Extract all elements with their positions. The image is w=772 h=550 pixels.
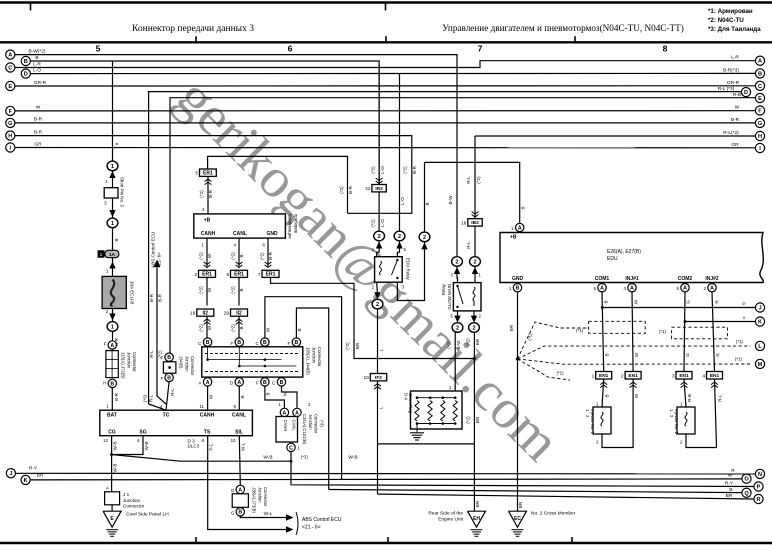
svg-text:7: 7	[258, 272, 261, 277]
svg-text:B: B	[239, 326, 244, 329]
bottom tick	[571, 537, 573, 543]
top border tick 2	[385, 4, 387, 11]
wire bus E to right C GR-R	[15, 85, 755, 87]
svg-text:L: L	[378, 406, 383, 409]
right bus connector M	[755, 359, 764, 368]
svg-text:(*2): (*2)	[198, 286, 203, 294]
svg-text:ER1: ER1	[234, 272, 244, 278]
svg-text:DLC3: DLC3	[188, 444, 200, 449]
svg-text:COM2: COM2	[678, 276, 693, 282]
svg-text:29: 29	[224, 311, 230, 316]
svg-text:G: G	[686, 300, 691, 304]
svg-text:B-R: B-R	[268, 251, 273, 260]
wire bus A left B-W	[15, 55, 457, 257]
TC wire	[166, 382, 169, 411]
COM1 wire	[602, 292, 604, 372]
wire to C34 pin2	[282, 386, 298, 408]
svg-text:B-R: B-R	[158, 293, 163, 302]
connector IF2	[370, 374, 386, 381]
svg-text:6: 6	[288, 44, 293, 54]
svg-text:CANH: CANH	[200, 413, 215, 419]
svg-text:B: B	[425, 202, 430, 205]
W-B bus	[112, 455, 291, 462]
svg-text:F: F	[256, 381, 259, 386]
connector IR2	[378, 65, 380, 185]
svg-text:SG: SG	[139, 430, 146, 436]
svg-text:CANL: CANL	[232, 413, 246, 419]
svg-text:B: B	[263, 340, 267, 346]
svg-text:B: B	[295, 340, 299, 346]
svg-text:B-R: B-R	[34, 129, 43, 135]
svg-text:(*2): (*2)	[198, 324, 203, 332]
svg-text:G: G	[231, 488, 235, 493]
svg-text:A: A	[683, 286, 687, 292]
dashed wire to M	[518, 359, 751, 364]
relay GLOW MAIN	[453, 283, 481, 311]
svg-text:W-B: W-B	[113, 464, 118, 473]
svg-text:L-R: L-R	[731, 55, 739, 61]
wire EN1-2 down	[602, 379, 633, 448]
svg-text:Short Pin No. 3: Short Pin No. 3	[120, 177, 125, 207]
svg-text:N: N	[758, 472, 762, 478]
right bus connector L	[755, 341, 764, 350]
svg-text:(*2): (*2)	[403, 166, 408, 174]
connector EN1 pin 1	[596, 372, 612, 380]
svg-text:Relay: Relay	[441, 283, 446, 295]
svg-text:GR-R: GR-R	[727, 80, 740, 86]
svg-text:E: E	[8, 84, 12, 90]
top border	[0, 1, 772, 4]
svg-text:J34(B): J34(B)	[179, 356, 184, 369]
svg-text:No. 2 Cross Member: No. 2 Cross Member	[531, 511, 576, 517]
wire bus H left B-R	[15, 136, 412, 214]
svg-text:TC: TC	[163, 413, 170, 419]
svg-text:10: 10	[364, 375, 370, 380]
svg-text:W-B: W-B	[263, 455, 272, 461]
dashed shield box COM2/INJ2	[672, 327, 728, 339]
ground EH	[468, 511, 486, 527]
svg-text:R-L: R-L	[149, 394, 154, 402]
svg-text:B: B	[240, 395, 245, 398]
right bus connector Q	[742, 488, 751, 497]
wire L-O drop	[399, 74, 401, 232]
svg-text:J: J	[9, 471, 12, 477]
svg-text:+B: +B	[510, 235, 517, 241]
+B feed route	[425, 162, 520, 222]
wire feed to ER1-5 from H bus route	[208, 156, 348, 213]
svg-text:Connector: Connector	[314, 414, 319, 434]
wire to C34 pin1	[265, 386, 285, 408]
wire to K circle Y	[685, 321, 755, 323]
svg-text:16: 16	[190, 311, 196, 316]
wire to ground	[111, 505, 113, 511]
ruler tick	[574, 36, 576, 42]
svg-text:(*2): (*2)	[230, 252, 235, 260]
svg-text:SIL: SIL	[235, 430, 243, 436]
svg-text:F: F	[287, 341, 290, 346]
svg-text:B-R: B-R	[149, 293, 154, 302]
svg-text:BR: BR	[518, 501, 523, 508]
svg-text:O: O	[744, 477, 749, 483]
svg-text:A: A	[295, 410, 299, 416]
svg-text:Junction: Junction	[257, 487, 262, 503]
svg-text:EN1: EN1	[710, 373, 720, 379]
glow plug ground	[416, 424, 418, 433]
connector EN1 pin 2	[625, 372, 641, 380]
svg-text:B: B	[263, 380, 267, 386]
bottom connector K circle	[21, 475, 30, 484]
svg-text:*2: N04C-TU: *2: N04C-TU	[708, 17, 744, 24]
svg-text:(*3): (*3)	[301, 455, 308, 460]
svg-text:J15(A),J72(B): J15(A),J72(B)	[121, 352, 126, 379]
W-L wire to ABS	[240, 516, 286, 518]
svg-text:W: W	[735, 105, 740, 111]
svg-text:(*3): (*3)	[143, 394, 148, 402]
svg-text:2: 2	[398, 234, 401, 240]
wire right E R-B	[170, 98, 755, 357]
svg-text:C: C	[758, 84, 762, 90]
svg-text:(*2): (*2)	[476, 176, 481, 184]
EDU relay pin2 out	[376, 282, 379, 295]
injector No.1	[593, 407, 611, 434]
node 2	[470, 257, 481, 267]
svg-text:R-Y: R-Y	[29, 466, 38, 472]
glow relay pin5 out	[457, 311, 459, 318]
svg-text:(*2): (*2)	[199, 190, 204, 198]
svg-text:W: W	[36, 105, 41, 111]
svg-text:G: G	[8, 121, 12, 127]
svg-text:TS: TS	[204, 430, 211, 436]
svg-text:EN1: EN1	[599, 373, 609, 379]
svg-text:CANH: CANH	[283, 420, 288, 432]
svg-text:W: W	[634, 299, 639, 304]
ground EC	[509, 511, 527, 527]
svg-text:J: J	[758, 306, 761, 312]
ruler tick	[385, 36, 387, 42]
svg-text:W-B: W-B	[113, 442, 118, 451]
svg-text:2: 2	[473, 326, 476, 332]
left bus connector G	[6, 118, 15, 127]
svg-text:Connector: Connector	[263, 487, 268, 507]
svg-text:A: A	[110, 343, 114, 349]
right bus connector A	[755, 56, 764, 65]
right bus connector I	[755, 143, 764, 152]
svg-text:(*2): (*2)	[371, 166, 376, 174]
GND wire to EC ground	[517, 292, 519, 511]
svg-text:A: A	[758, 59, 762, 65]
svg-text:W-B: W-B	[348, 455, 357, 461]
svg-text:K: K	[24, 478, 28, 484]
top border tick	[30, 4, 32, 11]
svg-text:B-R: B-R	[348, 185, 353, 194]
wire bus H right R-L	[475, 135, 755, 137]
svg-text:B: B	[521, 206, 526, 209]
svg-text:GR-R: GR-R	[34, 80, 47, 86]
svg-text:B-R: B-R	[208, 189, 213, 198]
svg-text:COM1: COM1	[595, 276, 610, 282]
wire stub below ABS arrow	[157, 278, 167, 405]
J35 box	[202, 347, 303, 377]
svg-text:ABS Contorl ECU: ABS Contorl ECU	[151, 232, 156, 268]
svg-text:Junction: Junction	[123, 498, 141, 503]
wire	[112, 228, 114, 251]
svg-text:ABS Contorl ECU: ABS Contorl ECU	[302, 517, 342, 523]
svg-text:<21 - 6>: <21 - 6>	[302, 525, 321, 531]
svg-text:II2: II2	[236, 310, 242, 316]
left bus connector I	[6, 143, 15, 152]
wire bus G B-R	[15, 122, 755, 124]
glow relay pin2 out	[473, 311, 475, 318]
connector 1A	[98, 250, 105, 257]
svg-text:BR: BR	[37, 473, 44, 479]
svg-text:Rear Side of the: Rear Side of the	[428, 511, 463, 517]
svg-text:*3: Для Таиланда: *3: Для Таиланда	[708, 26, 761, 33]
svg-text:B: B	[167, 355, 171, 361]
svg-text:L-O: L-O	[400, 197, 405, 205]
bus R BR	[378, 494, 754, 499]
svg-text:ER1: ER1	[202, 272, 212, 278]
svg-text:(*1): (*1)	[556, 371, 564, 376]
svg-text:W: W	[634, 393, 639, 398]
svg-text:A: A	[518, 225, 522, 231]
right bus connector H	[755, 131, 764, 140]
svg-text:L-O: L-O	[33, 67, 41, 73]
svg-text:2: 2	[456, 260, 459, 266]
svg-text:B: B	[729, 487, 732, 493]
svg-text:Cowl Side Panel LH: Cowl Side Panel LH	[126, 512, 169, 518]
right bus connector B	[755, 69, 764, 78]
svg-text:11: 11	[199, 404, 204, 409]
wire CANL down	[238, 386, 240, 410]
svg-text:W-B: W-B	[144, 442, 149, 451]
svg-text:D: D	[24, 72, 28, 78]
svg-text:(*2): (*2)	[259, 252, 264, 260]
svg-text:1A: 1A	[109, 252, 116, 258]
left bus connector A	[6, 50, 15, 59]
bus P R-Y	[291, 461, 754, 486]
right bus connector G	[755, 118, 764, 127]
svg-text:GND: GND	[266, 231, 278, 237]
svg-text:R-B: R-B	[687, 394, 692, 402]
svg-text:L: L	[758, 344, 762, 350]
svg-text:P: P	[742, 302, 745, 308]
dashed hub node	[516, 357, 519, 360]
svg-text:J35(A), J44(B): J35(A), J44(B)	[306, 347, 311, 375]
wire bus F W	[15, 110, 755, 112]
wire B-W drop node	[452, 257, 463, 267]
svg-text:Junction: Junction	[127, 352, 132, 369]
svg-text:W: W	[207, 253, 212, 258]
wire IF2 col to EH col	[378, 443, 475, 445]
svg-text:A: A	[630, 286, 634, 292]
glow plug box D4	[411, 391, 463, 429]
svg-text:A: A	[206, 380, 210, 386]
bottom tick	[387, 537, 389, 543]
svg-text:L-O: L-O	[380, 219, 385, 227]
svg-text:(*1): (*1)	[528, 333, 533, 341]
svg-text:Connector: Connector	[123, 503, 145, 508]
svg-text:B: B	[605, 394, 610, 397]
wire to J circle P	[602, 307, 755, 309]
svg-text:B-W(*2): B-W(*2)	[28, 48, 45, 54]
right bus connector C	[755, 81, 764, 90]
svg-text:Junction: Junction	[308, 414, 313, 430]
svg-text:Junction: Junction	[184, 356, 189, 372]
svg-text:H: H	[103, 381, 106, 386]
svg-text:1: 1	[100, 252, 103, 257]
wire +B feed from relay	[424, 162, 426, 232]
C34 bottom pin	[287, 443, 295, 451]
wire bus B left	[31, 61, 380, 185]
ground E cowl side panel	[103, 511, 121, 527]
svg-text:L: L	[378, 348, 383, 351]
svg-text:BR: BR	[475, 338, 480, 345]
ABS arrow up	[156, 266, 158, 278]
svg-text:2: 2	[474, 260, 477, 266]
right bus connector F	[755, 106, 764, 115]
svg-text:B: B	[280, 380, 284, 386]
svg-text:W: W	[208, 394, 213, 399]
svg-text:B: B	[239, 288, 244, 291]
right bus connector N	[755, 469, 764, 478]
svg-text:B: B	[114, 238, 119, 241]
svg-text:E26(A), E27(B): E26(A), E27(B)	[607, 249, 641, 255]
svg-text:H: H	[8, 134, 12, 140]
connector EN1 pin 3	[676, 372, 692, 380]
wire	[112, 309, 114, 322]
svg-text:3: 3	[672, 373, 675, 378]
svg-text:A: A	[8, 53, 12, 59]
svg-text:R-Y: R-Y	[725, 481, 734, 487]
svg-text:Injector No. 2: Injector No. 2	[674, 409, 679, 435]
svg-text:B: B	[758, 71, 762, 77]
left bus connector F	[6, 106, 15, 115]
connector ER1 pin7	[262, 270, 279, 277]
svg-text:8: 8	[663, 44, 668, 54]
arrow	[109, 171, 115, 178]
INJ2 wire	[712, 292, 715, 372]
left bus connector C	[6, 63, 15, 72]
right bus connector K	[755, 317, 764, 326]
svg-text:R-L: R-L	[717, 394, 722, 402]
node 2 circle	[419, 232, 430, 242]
svg-text:Комбинация: Комбинация	[288, 214, 293, 239]
right bus connector J	[755, 303, 764, 312]
wire EN1-1 to injector1	[602, 379, 604, 407]
svg-text:F: F	[758, 109, 762, 115]
svg-text:(*2): (*2)	[230, 324, 235, 332]
svg-text:INJ#2: INJ#2	[705, 276, 719, 282]
svg-text:(*3): (*3)	[320, 420, 325, 427]
COM2 wire	[684, 292, 685, 372]
svg-text:(*1): (*1)	[735, 357, 743, 362]
svg-text:B-R(*3): B-R(*3)	[723, 67, 739, 73]
svg-text:R-L: R-L	[149, 350, 154, 358]
svg-text:+B: +B	[204, 218, 211, 224]
svg-text:EH: EH	[473, 516, 480, 522]
connector IB2	[474, 136, 476, 219]
svg-text:R: R	[756, 497, 760, 503]
right bus connector P	[754, 482, 763, 491]
svg-text:C: C	[8, 66, 12, 72]
svg-text:B: B	[516, 286, 520, 292]
connector EN1 pin 4	[707, 372, 723, 380]
svg-text:F: F	[160, 356, 163, 361]
node circle 1 top	[107, 161, 118, 171]
svg-text:EDU Relay: EDU Relay	[406, 258, 411, 281]
svg-text:Коннектор передачи данных 3: Коннектор передачи данных 3	[132, 24, 254, 34]
svg-text:B: B	[604, 300, 609, 303]
svg-text:2: 2	[376, 302, 379, 308]
svg-text:ER1: ER1	[266, 272, 276, 278]
svg-text:(*2): (*2)	[466, 416, 471, 424]
left bus connector D	[21, 69, 30, 78]
INJ1 wire	[632, 292, 633, 372]
svg-text:W: W	[266, 327, 271, 332]
svg-text:W: W	[282, 391, 287, 396]
wire CANH down	[207, 386, 209, 410]
left bus connector B	[21, 56, 30, 65]
svg-text:B: B	[266, 392, 271, 395]
svg-text:Connector: Connector	[190, 356, 195, 376]
svg-text:1: 1	[592, 373, 595, 378]
svg-text:B: B	[297, 328, 302, 331]
svg-text:1: 1	[111, 164, 114, 170]
svg-text:2: 2	[194, 272, 197, 277]
svg-text:6: 6	[226, 272, 229, 277]
svg-text:Управление двигателем и пневмо: Управление двигателем и пневмотормоз(N04…	[442, 23, 684, 33]
svg-text:B: B	[167, 375, 171, 381]
connector ER1 pin5	[200, 169, 217, 176]
bus K BR	[31, 479, 742, 480]
connector II2 pin16	[197, 309, 214, 316]
svg-text:B: B	[110, 381, 114, 387]
svg-text:P: P	[116, 142, 119, 147]
svg-text:B: B	[35, 55, 38, 61]
svg-text:INJ#1: INJ#1	[625, 276, 639, 282]
short pin No.3	[112, 171, 114, 188]
combination meter box	[194, 214, 286, 238]
svg-text:18: 18	[461, 220, 467, 225]
svg-text:B: B	[24, 59, 28, 65]
svg-text:B: B	[238, 510, 242, 516]
ABS arrows bottom	[286, 514, 294, 520]
svg-text:10A ECU-B: 10A ECU-B	[130, 281, 135, 305]
svg-text:1: 1	[111, 221, 114, 227]
svg-text:K: K	[758, 320, 762, 326]
node 2 circle	[394, 231, 405, 241]
svg-text:IB2: IB2	[471, 220, 479, 226]
svg-text:приборов: приборов	[294, 214, 299, 234]
svg-text:5: 5	[96, 44, 101, 54]
svg-text:R-L: R-L	[170, 388, 175, 396]
bus J R-Y	[15, 472, 755, 475]
connector II2 pin29	[231, 309, 248, 316]
svg-text:B-R: B-R	[412, 165, 417, 174]
svg-text:(*2): (*2)	[198, 252, 203, 260]
wire	[112, 198, 114, 218]
svg-text:B: B	[206, 340, 210, 346]
node circle 1 mid	[107, 218, 118, 228]
wire IF2 to R bus	[377, 381, 379, 494]
svg-text:(*2): (*2)	[371, 219, 376, 227]
svg-text:IR2: IR2	[375, 186, 383, 192]
svg-text:D 4: D 4	[404, 393, 409, 400]
svg-text:L-R: L-R	[33, 61, 41, 67]
svg-text:2: 2	[456, 326, 459, 332]
node circle 1 below fuse	[107, 322, 118, 332]
svg-text:GR: GR	[34, 141, 42, 147]
